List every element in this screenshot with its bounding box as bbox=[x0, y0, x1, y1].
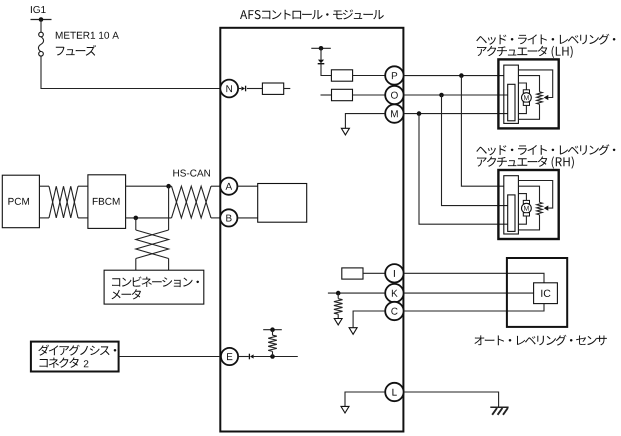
label HS-CAN bbox=[173, 170, 210, 177]
module title AFS control module bbox=[240, 10, 384, 20]
terminal C bbox=[385, 302, 403, 320]
actuator RH wiper wire bbox=[518, 181, 552, 209]
PCM box bbox=[2, 175, 39, 228]
label actuator RH line2 bbox=[477, 156, 574, 168]
terminal E bbox=[221, 348, 238, 365]
wire twist to meter right bbox=[168, 259, 170, 271]
fuse label METER1 10 A bbox=[56, 32, 119, 39]
actuator LH wiper arrow bbox=[544, 95, 549, 100]
actuator LH motor M1 bbox=[522, 93, 532, 103]
AFS control module box bbox=[220, 28, 403, 432]
actuator RH motor bottom lead bbox=[518, 216, 526, 224]
wire M to ground bbox=[345, 114, 385, 129]
wire resistor K to ground bbox=[337, 314, 339, 318]
ground triangle K bbox=[334, 319, 342, 325]
actuator LH pot bottom lead bbox=[518, 104, 539, 119]
actuator RH wiper arrow bbox=[544, 206, 549, 211]
actuator RH connector inner bbox=[508, 195, 515, 232]
wire twist to FBCM top bbox=[78, 185, 88, 187]
net label IG1 bbox=[31, 6, 46, 13]
wire CAN-H drop bbox=[168, 186, 170, 230]
junction dot CAN-H bbox=[166, 184, 171, 189]
auto leveling sensor box bbox=[507, 258, 567, 327]
wire fuse to terminal N bbox=[41, 56, 220, 89]
wire M branch to RH actuator bbox=[419, 114, 508, 225]
arrow into module at N bbox=[241, 86, 245, 92]
actuator LH motor bottom lead bbox=[518, 105, 526, 113]
wire N to arrow bbox=[238, 88, 241, 90]
actuator RH motor brush bottom bbox=[523, 213, 529, 216]
junction dot P branch bbox=[459, 73, 464, 78]
wire CAN-L drop bbox=[135, 218, 137, 230]
actuator LH pot top lead bbox=[518, 76, 539, 92]
label actuator LH line1 bbox=[476, 34, 615, 45]
headlight leveling actuator LH box bbox=[498, 59, 558, 128]
actuator RH potentiometer bbox=[537, 202, 543, 214]
actuator LH motor brush bottom bbox=[523, 102, 529, 105]
actuator RH pot bottom lead bbox=[518, 215, 539, 230]
resistor at N bbox=[262, 83, 283, 94]
twisted pair PCM-FBCM bbox=[49, 186, 78, 218]
ground triangle M bbox=[341, 128, 349, 135]
actuator LH connector inner bbox=[508, 84, 515, 121]
wire E to arrow bbox=[238, 356, 249, 358]
wire resistor N stub bbox=[284, 88, 291, 90]
wire I to sensor bbox=[404, 273, 544, 283]
wire twist to meter left bbox=[135, 259, 137, 271]
actuator RH connector bbox=[504, 176, 519, 234]
wire O to LH actuator bbox=[404, 94, 508, 96]
wire P branch to RH actuator bbox=[461, 76, 503, 187]
wire C to sensor bbox=[404, 304, 544, 311]
resistor at O bbox=[332, 89, 353, 100]
wire P to LH actuator bbox=[404, 75, 504, 77]
wire C to ground bbox=[353, 311, 385, 328]
power rail bar bbox=[311, 47, 331, 49]
pull-up bar E bbox=[263, 329, 282, 331]
resistor at I bbox=[342, 268, 363, 279]
resistor at P bbox=[331, 70, 352, 81]
wire twist to A bbox=[211, 185, 220, 187]
wire L to chassis ground bbox=[404, 392, 499, 407]
actuator RH motor M1 bbox=[522, 203, 532, 213]
actuator LH wiper wire bbox=[518, 70, 552, 98]
resistor pull-up E bbox=[268, 335, 277, 351]
wire K left bbox=[328, 292, 385, 294]
wire K to sensor IC bbox=[404, 292, 534, 294]
actuator LH motor brush top bbox=[523, 90, 529, 93]
junction dot M branch bbox=[417, 111, 422, 116]
arrow out of module at E bbox=[249, 354, 253, 360]
label actuator LH line2 bbox=[477, 46, 573, 58]
terminal K bbox=[385, 284, 403, 302]
wire O branch to RH actuator bbox=[442, 95, 508, 206]
label diagnosis line2 bbox=[40, 357, 79, 367]
twisted pair HS-CAN bbox=[172, 186, 212, 218]
combination meter box bbox=[104, 270, 204, 304]
junction dot E pullup bbox=[270, 354, 275, 359]
label auto leveling sensor bbox=[474, 335, 607, 346]
actuator RH pot top lead bbox=[518, 186, 539, 202]
wire K dot to resistor bbox=[337, 293, 339, 298]
diagnosis connector 2 box bbox=[31, 342, 119, 372]
wire bar to resistor E bbox=[272, 330, 274, 336]
chassis ground bbox=[490, 407, 508, 415]
wire PCM to twist top bbox=[39, 185, 49, 187]
wire IG1 to fuse bbox=[40, 20, 42, 33]
CAN transceiver box bbox=[258, 184, 307, 223]
actuator LH motor top lead bbox=[518, 83, 526, 90]
label IC bbox=[541, 290, 550, 297]
fuse METER1 symbol bbox=[38, 32, 43, 56]
headlight leveling actuator RH box bbox=[498, 170, 558, 239]
fuse label fuse (katakana) bbox=[56, 45, 96, 56]
junction dot CAN-L bbox=[134, 216, 139, 221]
wire resistor to O bbox=[353, 94, 386, 96]
wire B to CAN block bbox=[237, 217, 257, 219]
FBCM box bbox=[88, 175, 126, 229]
label diagnosis 2 bbox=[84, 360, 89, 367]
wire E internal bbox=[254, 356, 298, 358]
wire A to CAN block bbox=[237, 185, 257, 187]
wire L to ground triangle bbox=[345, 392, 385, 406]
wire arrow to resistor bbox=[247, 88, 263, 90]
label combination meter line1 bbox=[112, 277, 199, 288]
label actuator RH line1 bbox=[476, 144, 615, 155]
actuator LH potentiometer bbox=[537, 92, 543, 104]
actuator RH motor brush top bbox=[523, 200, 529, 203]
terminal M bbox=[385, 104, 403, 122]
ground triangle L bbox=[341, 406, 349, 413]
wire resistor to E wire bbox=[272, 351, 274, 356]
wire diagnosis to E bbox=[119, 356, 221, 358]
wire stub O bbox=[321, 94, 332, 96]
junction dot O branch bbox=[439, 93, 444, 98]
label combination meter line2 bbox=[112, 289, 142, 299]
wire resistor to I bbox=[363, 272, 385, 274]
actuator RH motor top lead bbox=[518, 194, 526, 201]
terminal N bbox=[220, 80, 238, 98]
wire rail to diode bbox=[320, 48, 322, 59]
wire FBCM to HS-CAN twist bottom bbox=[126, 217, 172, 219]
wire M to LH actuator bbox=[404, 113, 508, 115]
wire twist to B bbox=[211, 217, 220, 219]
label PCM bbox=[8, 198, 29, 205]
diode D1 bbox=[318, 60, 325, 64]
terminal O bbox=[385, 86, 403, 104]
terminal I bbox=[385, 264, 403, 282]
label diagnosis line1 bbox=[38, 345, 116, 356]
node IG1 bar bbox=[31, 19, 52, 21]
terminal P bbox=[385, 66, 403, 84]
wire FBCM to HS-CAN twist top bbox=[126, 185, 172, 187]
wire PCM to twist bottom bbox=[39, 217, 49, 219]
twisted pair to meter bbox=[136, 230, 169, 259]
ground triangle C bbox=[349, 328, 357, 335]
resistor K to ground bbox=[334, 299, 343, 315]
terminal A bbox=[220, 178, 237, 195]
junction dot IG1 bbox=[39, 17, 44, 22]
sensor IC box bbox=[534, 283, 558, 304]
wire diode to resistor P bbox=[321, 64, 331, 76]
junction dot pull-up top bbox=[270, 327, 275, 332]
actuator LH connector bbox=[504, 65, 519, 123]
terminal L bbox=[385, 383, 403, 401]
junction dot K bbox=[336, 291, 341, 296]
junction dot power rail bbox=[319, 46, 324, 51]
label FBCM bbox=[93, 198, 120, 205]
wire resistor to P bbox=[353, 75, 386, 77]
terminal B bbox=[220, 209, 237, 226]
wire twist to FBCM bottom bbox=[78, 217, 88, 219]
